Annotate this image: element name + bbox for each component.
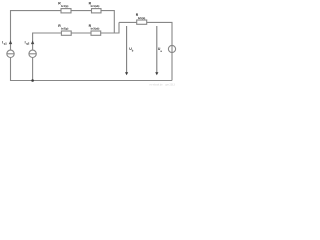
wire rail 3 — [119, 21, 137, 23]
wire source2 bottom lead — [32, 58, 34, 81]
svg-text:b: b — [132, 49, 134, 53]
wire top rail 1 — [11, 11, 62, 51]
svg-text:br2(ab): br2(ab) — [91, 27, 100, 31]
wire right vertical below source — [171, 53, 173, 81]
current source Iq2 — [29, 50, 36, 57]
faint watermark caption — [149, 84, 175, 87]
resistor Rbr2(ab) — [91, 31, 101, 35]
current source Iq1 — [7, 50, 14, 57]
wire rail 2 left — [33, 33, 62, 50]
node dot at source2 / bottom rail — [31, 79, 34, 82]
svg-text:br1(p): br1(p) — [61, 4, 68, 8]
svg-text:q1: q1 — [4, 42, 8, 46]
wire rail2 mid — [71, 32, 91, 34]
svg-text:ger 2013: ger 2013 — [165, 84, 175, 87]
svg-text:br2(p): br2(p) — [61, 27, 68, 31]
wire rail1 right — [101, 11, 114, 33]
resistor Rbr2(p) — [61, 31, 71, 35]
current arrow Iq2 — [31, 40, 34, 44]
resistor Rbrb — [137, 20, 147, 24]
current arrow Iq1 — [9, 40, 12, 44]
wire rail2 right + stub up — [101, 22, 119, 33]
svg-text:ev-ebook.de: ev-ebook.de — [149, 84, 163, 87]
wire bottom rail — [11, 58, 173, 81]
svg-text:a: a — [160, 50, 162, 53]
resistor Rbr1(p) — [61, 9, 71, 13]
voltage source Uq — [168, 45, 175, 52]
voltage arrow Ub — [125, 26, 128, 75]
resistor Rbr1(ab) — [92, 9, 102, 13]
voltage arrow Ua — [155, 26, 158, 75]
wire rail1 mid — [71, 10, 92, 12]
wire rail3 right + right vertical — [147, 22, 172, 45]
svg-text:br1(ab): br1(ab) — [91, 4, 100, 8]
svg-text:brb(a): brb(a) — [138, 16, 145, 20]
svg-text:q2: q2 — [26, 42, 30, 46]
